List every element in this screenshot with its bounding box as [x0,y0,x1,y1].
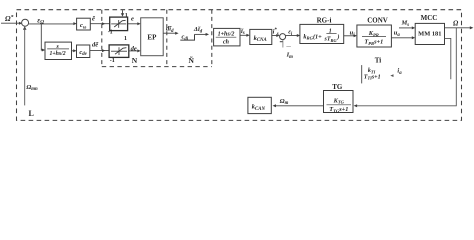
feedback arrowhead into S1 [23,26,27,29]
svg-text:sTRG: sTRG [324,37,338,43]
wire branch down from main wire [41,24,43,50]
svg-text:L: L [29,109,34,118]
svg-text:de: de [131,45,137,52]
summing junction S2 [280,34,286,40]
block k_CAN [248,97,271,113]
wire c_w to norm1 [90,23,109,25]
dashed box N/Ñ shared edge [166,10,168,67]
wire load torque M_s into MM 181 [399,27,413,29]
svg-text:1+hs/2: 1+hs/2 [218,32,235,38]
svg-text:RG-i: RG-i [317,17,332,25]
svg-text:Ñ: Ñ [188,56,194,65]
wire S1 to c_w block [29,23,75,25]
svg-text:-1: -1 [110,58,115,64]
wire norm1 to EP [128,23,139,25]
block k_CNA [250,29,272,44]
svg-text:1+hs/2: 1+hs/2 [49,51,65,57]
svg-text:MCC: MCC [421,14,438,22]
wire CONV to MM 181 [391,37,413,39]
wire speed feedback vertical [24,26,26,105]
svg-text:Ω: Ω [453,19,459,27]
svg-text:ch: ch [223,39,230,45]
wire EP output [163,32,177,34]
wire c_de to norm2 [90,50,109,52]
block c_di (partial edges) [180,34,194,40]
wire c_di output [195,33,208,35]
svg-text:TTIs+1: TTIs+1 [364,74,381,80]
dashed bottom edge of boxes N and Ñ [102,66,212,68]
block (1+hs/2)/ch [214,28,240,46]
block RG-i regulator [300,24,344,43]
svg-text:TTGs+1: TTGs+1 [329,106,348,113]
wire i_a tap from MM 181 [445,38,451,79]
svg-text:1: 1 [124,36,127,42]
block CONV [357,25,392,47]
wire Omega tap down to TG [356,28,457,106]
wire k_CNA to summing junction S2 [272,35,278,37]
svg-text:Ti: Ti [375,57,382,65]
arrowhead of i_a wire into Ti [390,74,393,77]
dashed box Ñ right edge [211,10,213,67]
svg-text:N: N [132,56,138,65]
block Ti (left edge visible) [361,65,363,83]
stub wire below S2 [282,40,284,48]
wire input into summing junction [1,22,21,24]
block c_de [77,45,90,58]
block derivative s/(1+hs/2) [45,42,72,59]
wire norm2 to EP [129,50,139,52]
wire to k_CNA [240,34,248,36]
dashed outer box L [17,10,462,121]
block norm2 (saturation) [109,45,129,58]
svg-text:kRG(1+: kRG(1+ [303,33,322,40]
wire MM 181 output Omega [445,27,472,29]
block norm1 (saturation) [110,17,128,31]
arrow from dashed top into norm1 [122,10,124,14]
wire derivative to c_de [72,50,75,52]
svg-text:TG: TG [332,83,343,91]
block EP (fuzzy regulator) [141,18,164,56]
summing junction S1 [22,19,29,26]
dashed box N left edge [101,10,103,67]
svg-text:CONV: CONV [367,17,388,25]
svg-text:EP: EP [147,33,157,41]
svg-text:MM 181: MM 181 [418,30,441,37]
minus sign at S2 [280,41,283,42]
block TG tachogenerator [324,91,354,113]
wire RG-i to CONV [344,35,356,37]
block MM 181 motor [415,23,444,44]
wire S2 to RG-i [286,35,299,37]
svg-text:): ) [336,33,339,40]
block c_w [77,18,91,30]
svg-text:e: e [131,15,134,22]
svg-text:—: — [285,44,291,49]
svg-text:-1: -1 [108,29,113,35]
wire TG to k_CAN [276,105,324,107]
svg-text:TPRs+1: TPRs+1 [364,39,383,46]
